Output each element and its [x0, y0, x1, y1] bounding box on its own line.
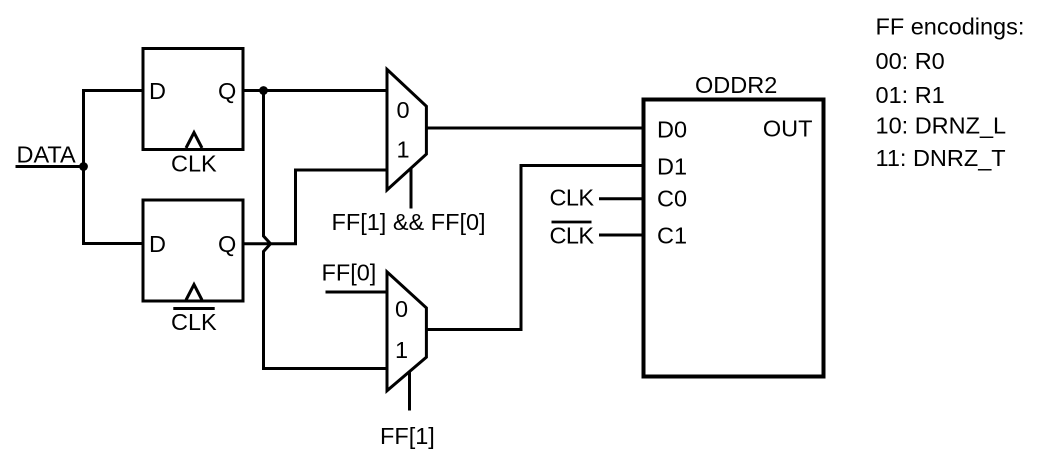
IC ODDR2: [644, 100, 824, 377]
svg-text:FF encodings:: FF encodings:: [876, 14, 1025, 40]
node DATA junction: [79, 162, 88, 171]
wire mux M1 select: [410, 168, 413, 209]
svg-text:OUT: OUT: [763, 116, 813, 142]
svg-text:00: R0: 00: R0: [876, 48, 945, 74]
wire FF1 Q to mux M1 input 0: [243, 89, 387, 92]
overline of CLK label at ODDR2 C1: [552, 221, 592, 224]
svg-text:1: 1: [397, 137, 410, 163]
svg-text:FF[0]: FF[0]: [322, 260, 377, 286]
wire DATA input: [16, 165, 85, 168]
wire FF2 Q to mux M1 input 1: [243, 170, 387, 244]
svg-text:C1: C1: [657, 223, 687, 249]
flip-flop FF1: [143, 49, 243, 150]
svg-text:FF[1] && FF[0]: FF[1] && FF[0]: [332, 209, 486, 235]
clock triangle FF1: [186, 133, 202, 149]
svg-text:CLK: CLK: [550, 184, 595, 210]
svg-text:0: 0: [395, 296, 408, 322]
svg-text:11: DNRZ_T: 11: DNRZ_T: [876, 145, 1006, 171]
svg-text:CLK: CLK: [171, 151, 217, 177]
svg-text:10: DRNZ_L: 10: DRNZ_L: [876, 113, 1007, 139]
flip-flop FF2: [143, 200, 243, 301]
svg-text:C0: C0: [657, 186, 687, 212]
svg-text:ODDR2: ODDR2: [695, 72, 777, 98]
mux M1: [387, 69, 426, 190]
wire mux M2 input 0: [326, 291, 388, 294]
wire DATA vertical trunk to FF1.D and FF2.D: [84, 91, 144, 244]
svg-text:D1: D1: [657, 154, 687, 180]
svg-text:DATA: DATA: [17, 142, 77, 168]
svg-text:01: R1: 01: R1: [876, 82, 945, 108]
overline of CLK label under FF2: [173, 307, 214, 310]
wire CLK-bar to ODDR2 C1: [599, 234, 644, 237]
svg-text:0: 0: [397, 97, 410, 123]
wire mux M1 output to ODDR2 D0: [426, 127, 644, 130]
wire mux M2 select: [408, 371, 411, 411]
svg-text:D: D: [149, 78, 166, 104]
svg-text:D0: D0: [657, 117, 687, 143]
wire mux M2 output to ODDR2 D1: [426, 166, 644, 330]
node FF1 Q junction: [259, 86, 268, 95]
svg-text:Q: Q: [218, 78, 236, 104]
mux M2: [387, 272, 426, 391]
svg-text:CLK: CLK: [171, 309, 217, 335]
wire FF1 Q down to mux M2 input 1 (hop over FF2 Q wire): [264, 91, 388, 369]
clock triangle FF2: [186, 285, 202, 301]
svg-text:CLK: CLK: [550, 223, 595, 249]
svg-text:Q: Q: [218, 231, 236, 257]
wire CLK to ODDR2 C0: [599, 197, 644, 200]
svg-text:D: D: [149, 231, 166, 257]
svg-text:FF[1]: FF[1]: [380, 423, 435, 449]
svg-text:1: 1: [395, 337, 408, 363]
